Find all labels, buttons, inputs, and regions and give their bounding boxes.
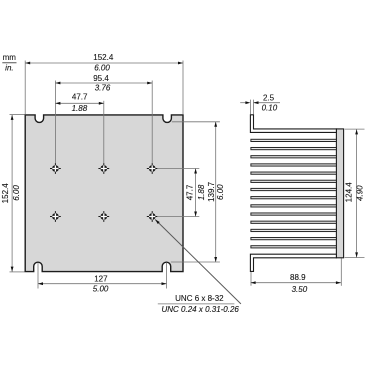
svg-text:in.: in. [5, 64, 13, 73]
svg-text:3.50: 3.50 [292, 285, 308, 294]
svg-text:3.76: 3.76 [95, 83, 111, 92]
svg-text:6.00: 6.00 [216, 184, 225, 200]
svg-text:6.00: 6.00 [94, 64, 110, 73]
svg-text:152.4: 152.4 [1, 183, 10, 204]
svg-text:0.10: 0.10 [262, 104, 278, 113]
svg-text:152.4: 152.4 [93, 53, 114, 62]
svg-text:127: 127 [94, 275, 108, 284]
svg-text:88.9: 88.9 [290, 273, 306, 282]
svg-text:6.00: 6.00 [12, 185, 21, 201]
svg-text:139.7: 139.7 [207, 181, 216, 202]
svg-text:47.7: 47.7 [72, 92, 88, 101]
svg-text:4.90: 4.90 [355, 185, 364, 201]
svg-text:1.88: 1.88 [72, 104, 88, 113]
svg-text:mm: mm [3, 53, 17, 62]
svg-text:5.00: 5.00 [93, 285, 109, 294]
svg-text:2.5: 2.5 [263, 94, 275, 103]
svg-text:1.88: 1.88 [197, 184, 206, 200]
svg-text:124.4: 124.4 [344, 182, 353, 203]
svg-text:UNC 6 x 8-32: UNC 6 x 8-32 [175, 294, 224, 303]
svg-text:UNC 0.24 x 0.31-0.26: UNC 0.24 x 0.31-0.26 [162, 305, 240, 314]
svg-text:95.4: 95.4 [93, 74, 109, 83]
svg-text:47.7: 47.7 [186, 184, 195, 200]
